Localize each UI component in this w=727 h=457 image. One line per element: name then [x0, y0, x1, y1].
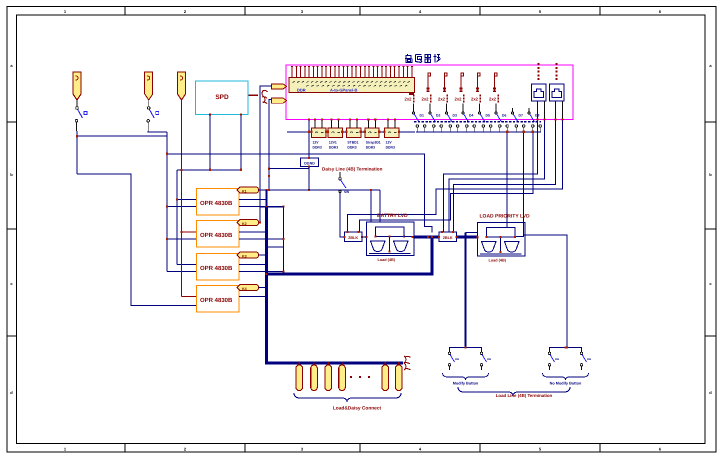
svg-text:SW: SW — [344, 190, 349, 194]
svg-text:LOAD PRIORITY LVD: LOAD PRIORITY LVD — [480, 214, 530, 220]
svg-text:2BLK: 2BLK — [348, 236, 358, 240]
svg-text:2x2: 2x2 — [438, 97, 446, 102]
svg-text:Load (4B): Load (4B) — [378, 258, 396, 262]
svg-text:sw: sw — [587, 357, 592, 361]
svg-text:Load Line (4B) Termination: Load Line (4B) Termination — [496, 393, 553, 398]
svg-text:SPD: SPD — [215, 94, 229, 101]
svg-text:K2: K2 — [242, 222, 247, 226]
svg-text:DDR3: DDR3 — [366, 146, 375, 150]
svg-text:DGND: DGND — [304, 162, 315, 166]
svg-text:DDR3: DDR3 — [386, 146, 395, 150]
svg-text:D6: D6 — [502, 114, 506, 118]
svg-text:Modify Button: Modify Button — [453, 382, 479, 386]
svg-text:12V: 12V — [313, 141, 320, 145]
svg-text:DDR: DDR — [297, 88, 306, 93]
svg-text:12V1: 12V1 — [329, 141, 337, 145]
svg-text:K3: K3 — [242, 254, 247, 258]
svg-text:D7: D7 — [519, 114, 523, 118]
svg-text:OPR 4830B: OPR 4830B — [200, 265, 233, 272]
svg-text:sw: sw — [555, 357, 560, 361]
svg-text:sw: sw — [455, 357, 460, 361]
svg-text:2x2: 2x2 — [405, 97, 413, 102]
svg-text:OPR 4830B: OPR 4830B — [200, 297, 233, 304]
svg-text:STBD1: STBD1 — [347, 141, 358, 145]
svg-text:D4: D4 — [469, 114, 473, 118]
svg-text:K1: K1 — [242, 189, 247, 193]
svg-text:2x2: 2x2 — [471, 97, 479, 102]
svg-text:2x2: 2x2 — [422, 97, 430, 102]
svg-text:No Modify Button: No Modify Button — [550, 382, 582, 386]
svg-text:2x2: 2x2 — [489, 97, 497, 102]
svg-text:OPR 4830B: OPR 4830B — [200, 200, 233, 207]
svg-text:Strap3D1: Strap3D1 — [366, 141, 381, 145]
svg-text:D5: D5 — [486, 114, 490, 118]
svg-text:DDR3: DDR3 — [329, 146, 338, 150]
svg-text:2x2: 2x2 — [455, 97, 463, 102]
svg-text:D8: D8 — [535, 114, 539, 118]
svg-text:Daisy Line (4B) Termination: Daisy Line (4B) Termination — [322, 167, 383, 172]
svg-text:2BLK: 2BLK — [443, 236, 453, 240]
svg-text:Load (4B): Load (4B) — [489, 259, 507, 263]
svg-text:D1: D1 — [420, 114, 424, 118]
svg-text:BATTRY LVD: BATTRY LVD — [377, 213, 408, 219]
svg-text:Load&Daisy Connect: Load&Daisy Connect — [333, 406, 382, 412]
svg-text:D2: D2 — [436, 114, 440, 118]
svg-text:K4: K4 — [242, 287, 247, 291]
svg-text:12V: 12V — [386, 141, 393, 145]
svg-text:D3: D3 — [453, 114, 457, 118]
svg-text:DDR3: DDR3 — [347, 146, 356, 150]
svg-text:OPR 4830B: OPR 4830B — [200, 232, 233, 239]
svg-text:sw: sw — [487, 357, 492, 361]
svg-text:A-to-GPanel-B: A-to-GPanel-B — [330, 88, 357, 93]
svg-text:DDR3: DDR3 — [313, 146, 322, 150]
